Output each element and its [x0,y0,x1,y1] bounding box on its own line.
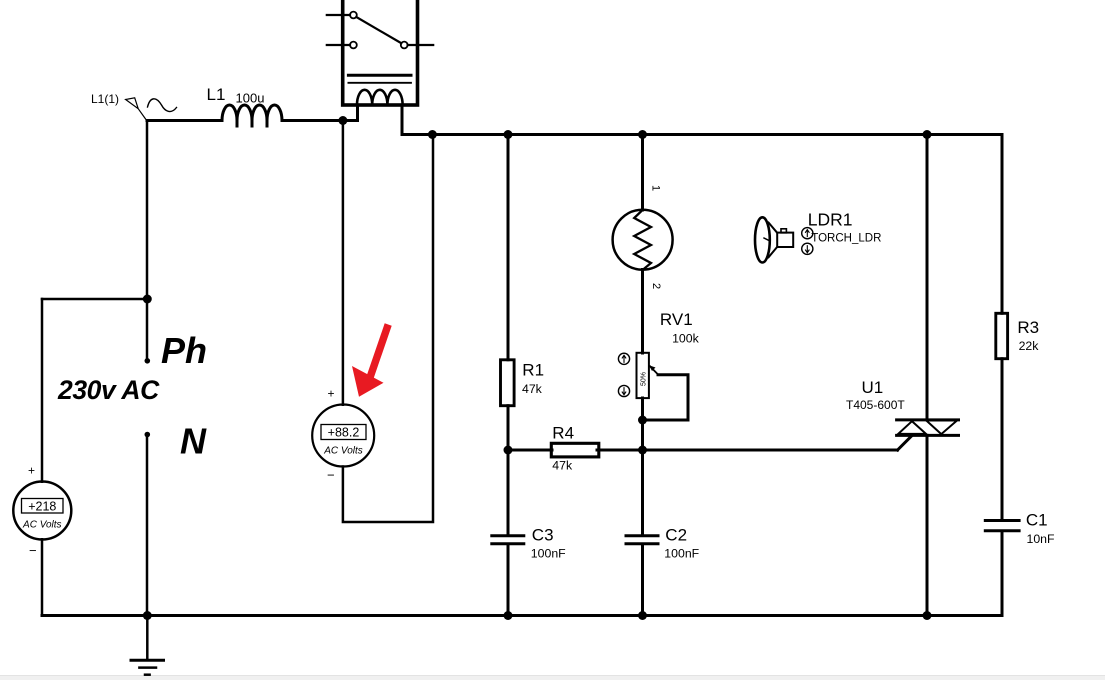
svg-text:R1: R1 [522,361,544,380]
wire triac MT1 lead [926,435,929,615]
svg-text:AC Volts: AC Volts [22,520,62,531]
triac U1 right triangle [926,421,957,435]
wire top rail y134.5 [402,133,1002,136]
node junction C3 bottom [504,611,513,620]
wire L1 row y120.5 [147,119,222,122]
torch body [777,233,793,247]
node junction left branch [143,295,152,304]
wire LDR pin1 lead [641,135,644,211]
capacitor C1 top plate [985,519,1019,522]
resistor R4 [551,443,599,457]
capacitor C1 bottom plate [985,529,1019,532]
probe flag [126,98,147,120]
ground bar 1 [131,659,164,662]
svg-text:T405-600T: T405-600T [846,398,905,412]
wire M2 loop bottom and right [343,135,433,523]
node N terminal dot [145,432,151,438]
pot wiper arrowhead [649,365,656,371]
voltmeter M1 body [13,482,71,540]
svg-text:C3: C3 [532,526,554,545]
relay stub right [408,44,434,46]
svg-text:+: + [328,387,335,401]
probe sine squiggle [148,99,177,112]
svg-text:L1(1): L1(1) [91,92,119,106]
svg-text:C1: C1 [1026,511,1048,530]
svg-text:47k: 47k [522,382,543,396]
torch down button [802,243,813,254]
torch cone [769,223,778,258]
svg-text:1: 1 [650,185,662,191]
svg-text:AC Volts: AC Volts [323,446,363,457]
relay coil lead left [356,105,359,121]
svg-text:RV1: RV1 [660,310,693,329]
annotation red arrow head [352,366,384,397]
voltmeter M2 body [312,405,374,467]
resistor R3 [996,313,1008,358]
wire C2 top lead [641,450,644,536]
LDR zigzag [634,210,651,270]
node junction R1 bottom [504,446,513,455]
torch bulb mark [764,238,769,241]
capacitor C2 top plate [626,534,658,537]
relay coil [357,90,403,105]
wire R3 to C1 [1001,359,1004,521]
svg-text:100u: 100u [236,91,265,106]
ground stub [146,616,149,661]
capacitor C2 bottom plate [626,542,658,545]
triac U1 top bar [897,418,959,421]
wire R4 left lead [508,449,552,452]
wire C3 top lead [507,450,510,536]
relay switch arm [356,17,401,43]
relay switch stub top [327,14,350,16]
svg-text:+218: +218 [28,499,56,513]
wire C3 bottom lead [507,544,510,616]
svg-text:Ph: Ph [161,330,207,371]
relay coil lead right [401,105,404,135]
bottom rail [42,614,1002,617]
ground bar 2 [139,666,156,669]
wire branch y299 [42,298,147,301]
pot down button [618,385,629,396]
inductor L1 [222,105,282,126]
wire R4 right to gate [597,449,898,452]
resistor R1 [501,360,515,406]
pot lower lead [641,398,644,450]
capacitor C3 bottom plate [492,542,524,545]
wire [282,119,358,122]
svg-text:47k: 47k [552,458,573,472]
svg-text:230v AC: 230v AC [57,375,160,405]
wire N vertical [146,435,149,616]
pot up button [618,353,629,364]
svg-text:100nF: 100nF [531,547,566,561]
node junction triac top [923,130,932,139]
node junction LDR top [638,130,647,139]
relay box [343,0,418,105]
node junction RV1 bottom [638,446,647,455]
svg-text:R3: R3 [1017,318,1039,337]
svg-text:10nF: 10nF [1027,532,1056,546]
pot wiper wire [643,375,689,420]
wire M2 branch down [342,121,345,405]
relay switch stub mid-left [327,44,350,46]
torch lens ellipse [755,217,770,262]
pot wiper arrow line [650,366,658,374]
svg-text:+88.2: +88.2 [328,426,360,440]
svg-text:TORCH_LDR: TORCH_LDR [811,232,881,244]
svg-text:L1: L1 [207,85,226,104]
wire triac MT2 lead [926,135,929,420]
ground bar 3 [145,673,150,676]
wire LDR pin2 to pot [641,270,644,354]
svg-text:U1: U1 [862,378,884,397]
relay core line upper [348,74,411,77]
svg-text:2: 2 [650,283,662,289]
node Ph terminal dot [145,358,151,364]
LDR RV1 sensor circle [613,210,673,270]
voltmeter M1 display box [22,499,64,514]
wire C2 bottom lead [641,544,644,616]
relay contact circle right [401,42,408,49]
torch up button [802,228,813,239]
svg-text:50%: 50% [641,372,648,386]
voltmeter M2 display box [321,425,366,440]
svg-text:−: − [29,543,37,558]
svg-text:−: − [327,468,335,483]
node junction coil left [338,116,347,125]
wire R3 top lead [1001,135,1004,314]
torch button [781,229,786,233]
wire R1 top lead [507,135,510,360]
svg-text:N: N [180,421,207,462]
wire C1 bottom lead [1001,531,1004,616]
ground junction [143,611,152,620]
wire R1 bottom lead [507,406,510,450]
svg-text:+: + [28,464,35,478]
gate diagonal [898,437,912,451]
node junction wiper [638,416,647,425]
potentiometer RV1 body [637,353,649,398]
wire x42 down to meter [41,299,44,482]
triac U1 bottom bar [897,434,959,437]
wire x42 below meter [41,539,44,615]
capacitor C3 top plate [492,534,524,537]
relay contact circle top [350,12,357,19]
svg-text:R4: R4 [552,424,574,443]
node junction R1 top [504,130,513,139]
svg-text:100nF: 100nF [664,547,699,561]
triac U1 left triangle [898,421,926,434]
bottom gray strip [0,676,1105,680]
svg-text:LDR1: LDR1 [808,209,853,229]
node junction C2 bottom [638,611,647,620]
wire left vertical to Ph [146,121,149,362]
annotation red arrow shaft [371,328,388,376]
node junction triac bottom [923,611,932,620]
relay contact circle mid-left [350,42,357,49]
svg-text:C2: C2 [665,526,687,545]
node junction coil right [428,130,437,139]
svg-text:100k: 100k [672,332,700,346]
svg-text:22k: 22k [1019,339,1040,353]
relay core line lower [348,82,411,84]
